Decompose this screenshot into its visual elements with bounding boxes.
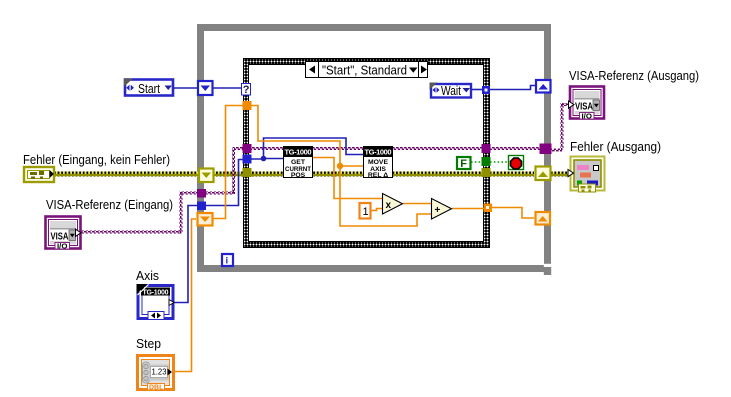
- wire blue axis inside loop: [205, 160, 243, 206]
- wire blue Start to case selector: [213, 87, 242, 89]
- node blue junction: [261, 156, 267, 162]
- tunnel blue case left: [243, 155, 252, 164]
- tunnel orange case right: [484, 204, 493, 213]
- wire blue Wait to tunnel: [472, 89, 482, 91]
- while loop: [201, 28, 548, 269]
- svg-text:TG-1000: TG-1000: [285, 148, 312, 157]
- svg-text:Step: Step: [136, 337, 161, 351]
- svg-text:1: 1: [363, 206, 369, 218]
- svg-text:TG-1000: TG-1000: [365, 148, 392, 157]
- case selector ?: [242, 84, 251, 97]
- svg-text:Fehler (Ausgang): Fehler (Ausgang): [570, 140, 661, 154]
- constant 1: [360, 203, 371, 219]
- wire blue Axis into loop: [174, 206, 198, 303]
- svg-text:I/O: I/O: [582, 113, 593, 120]
- wire orange step inside loop up to case tunnel: [213, 106, 243, 219]
- tunnel purple loop right: [540, 144, 552, 155]
- node orange junction: [337, 163, 343, 169]
- wire orange 1 to multiply: [371, 209, 382, 211]
- svg-text:?: ?: [243, 84, 250, 96]
- control error in icon: [24, 167, 54, 182]
- wire orange Step into loop: [175, 219, 196, 372]
- svg-text:DBL: DBL: [149, 385, 164, 392]
- control Wait: [430, 83, 472, 99]
- tunnel purple case left: [243, 144, 252, 153]
- shift register olive left: [199, 169, 214, 183]
- wire orange GET output to multiply: [313, 158, 382, 199]
- tunnel purple left loop: [197, 189, 206, 198]
- wire VISA purple run: [80, 103, 569, 234]
- wire error cluster main run (Fehler in -> out): [54, 172, 568, 177]
- indicator Fehler out icon: [568, 157, 605, 193]
- shift register orange left: [198, 213, 213, 226]
- svg-text:TG-1000: TG-1000: [143, 290, 169, 297]
- wire orange tunnel to shift register: [491, 208, 534, 219]
- svg-text:POS: POS: [291, 172, 306, 179]
- svg-text:I/O: I/O: [57, 243, 68, 250]
- tunnel orange case left: [243, 101, 252, 110]
- svg-text:i: i: [226, 256, 229, 267]
- svg-text:VISA: VISA: [575, 101, 593, 113]
- svg-text:VISA-Referenz (Eingang): VISA-Referenz (Eingang): [46, 198, 173, 212]
- svg-text:REL Δ: REL Δ: [368, 172, 388, 179]
- wire orange step to MOVE input: [340, 165, 363, 167]
- svg-text:Fehler (Eingang, kein Fehler): Fehler (Eingang, kein Fehler): [23, 153, 170, 167]
- tunnel blue left loop: [197, 202, 206, 211]
- svg-text:Axis: Axis: [136, 269, 159, 283]
- svg-text:+: +: [435, 205, 441, 216]
- control Start: [124, 79, 173, 97]
- wire orange multiply to add: [403, 203, 431, 205]
- shift register orange right: [536, 212, 551, 225]
- shift register olive right: [536, 167, 551, 181]
- svg-text:Start: Start: [138, 81, 160, 96]
- indicator VISA out icon: [569, 87, 605, 121]
- svg-text:VISA: VISA: [51, 231, 69, 243]
- iteration terminal i: [222, 254, 233, 267]
- shift register blue right: [536, 80, 551, 93]
- tunnel green case right: [482, 157, 491, 166]
- svg-text:F: F: [460, 158, 467, 170]
- wire orange step branch down to add: [340, 166, 431, 226]
- subVI MOVE AXIS REL: [363, 146, 393, 179]
- wire green dotted F to stop: [471, 161, 508, 163]
- function multiply: [383, 194, 403, 215]
- function add: [432, 199, 452, 220]
- shift register blue left: [198, 81, 213, 95]
- tunnel purple case right: [482, 144, 491, 153]
- wire blue tunnel to shift register: [490, 86, 535, 90]
- tunnel olive case right: [482, 168, 491, 177]
- control Axis icon: [137, 284, 175, 320]
- svg-text:1.23: 1.23: [152, 367, 167, 377]
- svg-text:VISA-Referenz (Ausgang): VISA-Referenz (Ausgang): [569, 69, 699, 83]
- tunnel blue case right (Wait): [482, 86, 490, 94]
- svg-text:Wait: Wait: [441, 83, 461, 98]
- case structure: [244, 59, 490, 248]
- loop condition stop terminal: [509, 156, 524, 170]
- constant F: [457, 157, 471, 170]
- case selector label: [306, 62, 428, 78]
- subVI GET CURRNT POS: [283, 146, 313, 179]
- wire orange add output to tunnel: [452, 208, 484, 210]
- wire blue axis inside case to GET: [251, 158, 283, 161]
- svg-text:x: x: [386, 200, 392, 211]
- control VISA in icon: [46, 217, 82, 251]
- wire blue Start: [173, 87, 197, 89]
- tunnel olive case left: [243, 168, 252, 177]
- wire blue axis branch to MOVE: [264, 138, 364, 159]
- control Step icon: [138, 356, 174, 392]
- svg-text:"Start", Standard: "Start", Standard: [322, 64, 407, 78]
- wire orange step inside case: [251, 106, 340, 167]
